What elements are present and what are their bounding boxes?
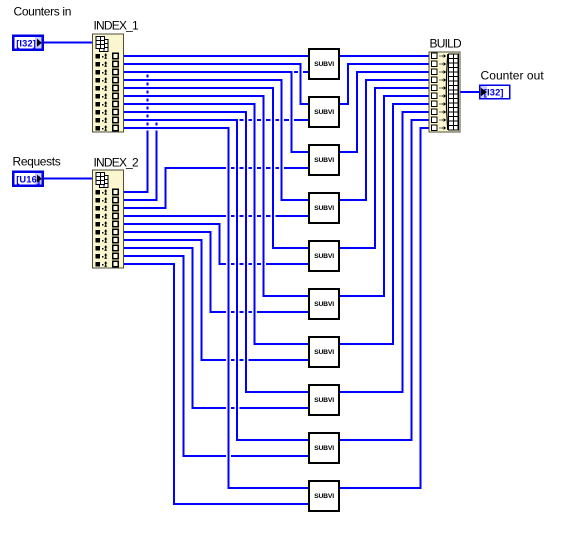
wire INDEX_1 row2 to SUBVI2 [122, 64, 310, 104]
svg-text:SUBVI: SUBVI [314, 157, 334, 164]
svg-text:[U16]: [U16] [16, 174, 40, 184]
wire INDEX_2 row7 to SUBVI7 [122, 240, 310, 360]
wire SUBVI8 to BUILD row8 [338, 112, 431, 392]
wire INDEX_1 row7 to SUBVI7 [122, 104, 310, 344]
subVI box SUBVI2 [309, 97, 339, 127]
wire SUBVI3 to BUILD row3 [338, 72, 431, 152]
wire BUILD to Counter out [458, 91, 480, 93]
subVI box SUBVI3 [309, 145, 339, 175]
wire INDEX_1 row9 to SUBVI9 [122, 120, 310, 440]
svg-text:SUBVI: SUBVI [314, 61, 334, 68]
subVI box SUBVI4 [309, 193, 339, 223]
terminal Counter out [I32] [480, 85, 510, 99]
svg-text:Counters in: Counters in [14, 5, 72, 19]
wire INDEX_1 row1 to SUBVI1 [122, 55, 310, 57]
wire INDEX_2 row9 to SUBVI9 [122, 256, 310, 456]
svg-text:SUBVI: SUBVI [314, 301, 334, 308]
svg-text:SUBVI: SUBVI [314, 493, 334, 500]
wire INDEX_2 row1 to SUBVI1 [122, 72, 310, 192]
wire SUBVI7 to BUILD row7 [338, 104, 431, 344]
wire INDEX_2 row8 to SUBVI8 [122, 248, 310, 408]
svg-text:SUBVI: SUBVI [314, 253, 334, 260]
wire Requests to INDEX_2 [43, 178, 94, 180]
svg-text:SUBVI: SUBVI [314, 445, 334, 452]
node INDEX_2 (Index Array) [93, 170, 124, 268]
terminal Counters in [I32] [13, 36, 42, 50]
subVI box SUBVI10 [309, 481, 339, 511]
wire SUBVI2 to BUILD row2 [338, 64, 431, 104]
svg-text:SUBVI: SUBVI [314, 349, 334, 356]
wire Counters in to INDEX_1 [43, 42, 94, 44]
subVI box SUBVI9 [309, 433, 339, 463]
svg-text:Counter out: Counter out [481, 69, 545, 83]
wire INDEX_1 row5 to SUBVI5 [122, 88, 310, 248]
subVI box SUBVI8 [309, 385, 339, 415]
wire INDEX_1 row6 to SUBVI6 [122, 96, 310, 296]
wire INDEX_2 row3 to SUBVI3 [122, 168, 310, 208]
svg-text:SUBVI: SUBVI [314, 205, 334, 212]
wire SUBVI5 to BUILD row5 [338, 88, 431, 248]
wire SUBVI9 to BUILD row9 [338, 120, 431, 440]
svg-text:SUBVI: SUBVI [314, 109, 334, 116]
subVI box SUBVI1 [309, 49, 339, 79]
subVI box SUBVI7 [309, 337, 339, 367]
wire SUBVI4 to BUILD row4 [338, 80, 431, 200]
wire INDEX_2 row6 to SUBVI6 [122, 232, 310, 312]
svg-text:INDEX_2: INDEX_2 [94, 156, 140, 170]
wire INDEX_2 row10 to SUBVI10 [122, 264, 310, 504]
wire SUBVI6 to BUILD row6 [338, 96, 431, 296]
wire INDEX_2 row5 to SUBVI5 [122, 224, 310, 264]
subVI box SUBVI5 [309, 241, 339, 271]
wire INDEX_1 row8 to SUBVI8 [122, 112, 310, 392]
wire INDEX_2 row2 to SUBVI2 [122, 120, 310, 200]
wire INDEX_1 row3 to SUBVI3 [122, 72, 310, 152]
wire INDEX_1 row10 to SUBVI10 [122, 128, 310, 488]
svg-text:SUBVI: SUBVI [314, 397, 334, 404]
node INDEX_1 (Index Array) [93, 34, 124, 132]
subVI box SUBVI6 [309, 289, 339, 319]
node BUILD (Build Array) [429, 52, 460, 132]
svg-text:INDEX_1: INDEX_1 [94, 19, 140, 33]
wire SUBVI10 to BUILD row10 [338, 128, 431, 488]
wire SUBVI1 to BUILD row1 [338, 55, 431, 57]
terminal Requests [U16] [13, 172, 42, 186]
svg-text:[I32]: [I32] [484, 88, 504, 98]
svg-text:[I32]: [I32] [16, 38, 36, 48]
svg-text:BUILD: BUILD [430, 37, 462, 51]
wire INDEX_2 row4 to SUBVI4 [122, 215, 310, 217]
wire INDEX_1 row4 to SUBVI4 [122, 80, 310, 200]
svg-text:Requests: Requests [13, 155, 61, 169]
